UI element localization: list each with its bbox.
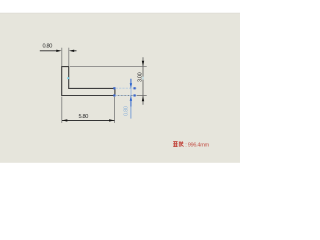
viewport canvas (beige) — [0, 13, 240, 162]
dimension 0.80 top: left arrow — [56, 50, 61, 52]
dimension 0.80 top: extension line right — [68, 48, 70, 66]
sketch relation marker (cyan) on inner vertical edge — [67, 77, 69, 79]
annotation: chinese char 1 (total) — [173, 142, 177, 147]
white page background — [0, 0, 240, 180]
selected dimension 0.80 right: dim line strong stem bottom — [130, 101, 132, 107]
annotation: chinese char 2 (length) — [179, 141, 184, 146]
dimension 0.80 top: leader line under text — [40, 50, 57, 52]
grip point at edge top endpoint — [113, 87, 115, 89]
dimension 3.00 right: top arrow — [142, 61, 144, 66]
dimension 5.80 bottom: right arrow — [109, 119, 114, 121]
toolbar edge line — [0, 12, 240, 14]
dimension 0.80 top: right arrow tail — [74, 50, 77, 52]
selected dimension 0.80 right: dimension line (blue) — [130, 79, 132, 119]
selected dimension 0.80 right: bottom arrow (blue) — [130, 96, 132, 101]
svg-text:5.80: 5.80 — [79, 114, 89, 120]
svg-text:0.80: 0.80 — [43, 44, 53, 50]
selected dimension 0.80 right: dim line light middle — [130, 89, 132, 96]
grip point at edge bottom endpoint — [113, 94, 115, 96]
selected dimension 0.80 right: bottom extension line (blue) — [116, 94, 137, 96]
dimension 3.00 right: top extension line — [70, 66, 147, 68]
dimension 0.80 top: right arrow — [69, 50, 74, 52]
selected dimension 0.80 right: top arrow (blue) — [130, 83, 132, 88]
selected dimension 0.80 right: dim line strong stem top — [130, 79, 132, 84]
selected dimension 0.80 right: top extension line (blue) — [116, 87, 137, 89]
dimension 5.80 bottom: dimension line — [62, 119, 114, 121]
L-profile sketch outline — [62, 67, 115, 96]
dimension 5.80 bottom: extension line right — [114, 97, 116, 123]
dimension 3.00 right: bottom arrow — [142, 96, 144, 101]
grip point on top extension line — [134, 87, 136, 89]
dimension 3.00 right: bottom extension line — [116, 94, 147, 96]
svg-text:: 996.4mm: : 996.4mm — [185, 142, 209, 148]
cyan highlight segment on 3.00 dimension line — [142, 77, 144, 80]
dimension 0.80 top: extension line left — [61, 48, 63, 66]
dimension 5.80 bottom: left arrow — [62, 119, 67, 121]
grip point on bottom extension line — [134, 94, 136, 96]
dimension 3.00 right: dimension line — [142, 57, 144, 105]
svg-text:0.80: 0.80 — [124, 106, 130, 116]
dimension 5.80 bottom: extension line left — [61, 97, 63, 123]
